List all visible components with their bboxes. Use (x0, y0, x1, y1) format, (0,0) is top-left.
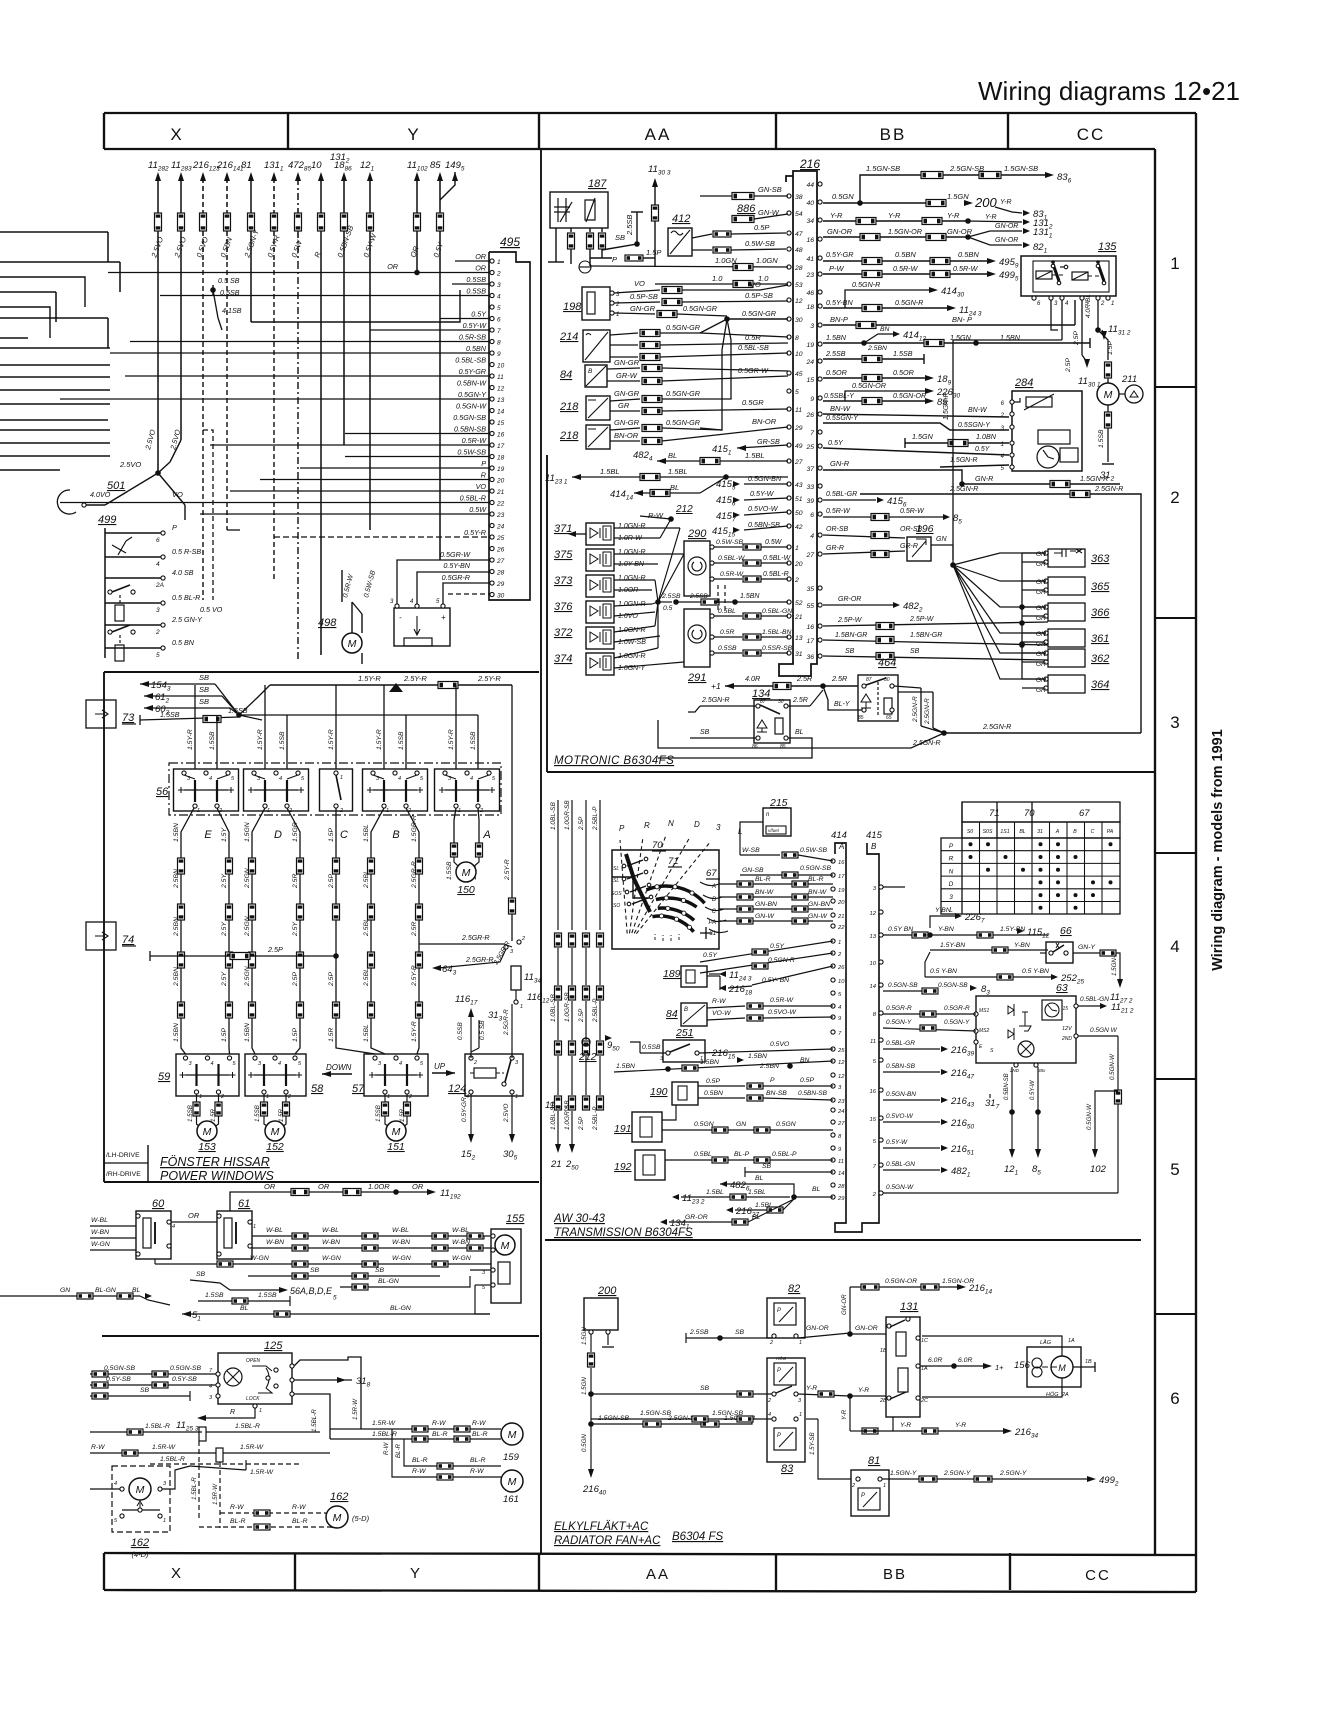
svg-text:2.5BL: 2.5BL (363, 918, 370, 937)
414/30 row (845, 290, 930, 308)
svg-text:1.5SB: 1.5SB (893, 349, 913, 358)
svg-text:1: 1 (259, 1408, 262, 1414)
svg-text:1B: 1B (1085, 1359, 1092, 1365)
dashed stub to pin 30 (448, 593, 490, 595)
svg-text:1.5GN-SB: 1.5GN-SB (640, 1410, 671, 1417)
svg-text:1.5GN-SB: 1.5GN-SB (1004, 164, 1038, 173)
svg-text:S0S: S0S (983, 829, 993, 835)
wire to 495 pin 21 (230, 490, 490, 492)
svg-text:0.5SGN-Y: 0.5SGN-Y (958, 422, 991, 429)
BL-R row to 161 (404, 1439, 501, 1466)
svg-text:31: 31 (795, 651, 803, 658)
svg-text:84: 84 (666, 1008, 678, 1020)
svg-text:RADIATOR FAN+AC: RADIATOR FAN+AC (554, 1535, 661, 1547)
svg-text:2.5R: 2.5R (411, 922, 418, 937)
svg-text:0.5GN-OR: 0.5GN-OR (893, 393, 926, 400)
motronic section bottom border (547, 771, 1155, 773)
svg-text:152: 152 (266, 1141, 284, 1153)
svg-text:GN-OR: GN-OR (806, 1325, 829, 1332)
svg-text:OR: OR (188, 1211, 200, 1220)
0.5Y-BN 252/25 row (925, 976, 1052, 978)
wires left of 60 (90, 1225, 136, 1227)
svg-text:GR-R: GR-R (900, 543, 918, 550)
0.5GR-R row (883, 1013, 976, 1015)
svg-text:0.5SB: 0.5SB (466, 287, 486, 296)
svg-text:3: 3 (378, 1061, 382, 1067)
svg-text:85: 85 (1032, 1164, 1041, 1177)
svg-text:1: 1 (883, 1483, 886, 1489)
svg-text:1.5BN: 1.5BN (700, 1059, 719, 1066)
svg-text:2: 2 (794, 577, 799, 584)
svg-text:BN-OR: BN-OR (614, 431, 639, 440)
svg-text:2.5P-W: 2.5P-W (909, 616, 935, 623)
svg-text:25: 25 (805, 444, 814, 451)
svg-text:1124 3: 1124 3 (729, 970, 752, 983)
svg-text:0.5GN-GR: 0.5GN-GR (666, 418, 700, 427)
svg-text:2.5Y: 2.5Y (221, 972, 228, 987)
svg-text:E: E (204, 829, 212, 841)
svg-text:1125 3: 1125 3 (176, 1420, 199, 1433)
svg-text:(5-D): (5-D) (352, 1514, 370, 1523)
svg-text:2.5Y: 2.5Y (221, 874, 228, 889)
svg-text:Y-R: Y-R (830, 211, 843, 220)
svg-text:151: 151 (387, 1141, 405, 1153)
svg-text:PA: PA (1107, 829, 1114, 835)
2.5GR-R row to 11/34 (419, 943, 504, 945)
left edge BL-GN fuses (0, 1295, 140, 1297)
svg-text:56: 56 (156, 786, 169, 798)
svg-text:4822: 4822 (903, 601, 923, 614)
svg-text:41412: 41412 (903, 330, 926, 343)
svg-text:7: 7 (873, 1164, 877, 1170)
wire to 495 pin 11 (125, 375, 490, 377)
switch feed wires Y-R / SB (194, 685, 196, 769)
svg-text:P: P (481, 459, 486, 468)
svg-text:187: 187 (588, 178, 607, 190)
svg-text:P: P (770, 1077, 775, 1084)
svg-text:35: 35 (806, 586, 814, 593)
svg-text:1: 1 (520, 1004, 523, 1010)
svg-text:2.5Y-R: 2.5Y-R (403, 674, 427, 683)
svg-text:0.5R-W: 0.5R-W (893, 264, 919, 273)
svg-text:189: 189 (663, 968, 681, 980)
svg-text:W-BN: W-BN (266, 1239, 284, 1246)
svg-text:1A: 1A (921, 1366, 928, 1372)
svg-text:1.5GN: 1.5GN (581, 1377, 588, 1395)
svg-text:OPEN: OPEN (246, 1358, 261, 1364)
svg-text:1.5R-W: 1.5R-W (250, 1469, 274, 1476)
svg-text:0.5GN-OR: 0.5GN-OR (885, 1278, 917, 1285)
svg-text:53: 53 (795, 282, 803, 289)
svg-text:5: 5 (1170, 1160, 1179, 1179)
2.5Y-R vertical right (511, 685, 513, 941)
motor 150 (454, 808, 456, 843)
svg-text:GN: GN (736, 1121, 746, 1128)
svg-text:5: 5 (873, 1139, 877, 1145)
svg-text:1.5GN: 1.5GN (912, 432, 934, 441)
svg-text:11282: 11282 (148, 160, 169, 173)
svg-text:1.5Y-R: 1.5Y-R (187, 729, 194, 750)
svg-text:11283: 11283 (171, 160, 192, 173)
svg-text:21: 21 (550, 1159, 562, 1170)
svg-text:GN-R: GN-R (975, 474, 993, 483)
svg-text:11192: 11192 (440, 1188, 461, 1201)
fuse feed 18/86 (341, 172, 347, 181)
svg-text:21614: 21614 (968, 1283, 992, 1296)
svg-text:1: 1 (1001, 442, 1004, 448)
svg-text:17: 17 (838, 874, 845, 880)
wire to 495 pin 18 (345, 456, 490, 458)
svg-text:0.5Y-GR: 0.5Y-GR (461, 1097, 468, 1122)
svg-text:1.5BN-GR: 1.5BN-GR (910, 632, 942, 639)
1.5GN 1.0BN row (904, 438, 906, 448)
svg-text:2.5VO: 2.5VO (119, 460, 141, 469)
svg-text:2.5P: 2.5P (1073, 331, 1080, 346)
svg-text:AW 30-43: AW 30-43 (553, 1213, 606, 1225)
wire to 495 pin 3 (452, 283, 490, 285)
svg-text:1.0: 1.0 (712, 274, 723, 283)
svg-text:4: 4 (209, 776, 212, 782)
svg-text:499: 499 (98, 514, 116, 526)
svg-text:BN-W: BN-W (808, 889, 827, 896)
GN-SB row (740, 874, 833, 876)
svg-text:0.5SBL-Y: 0.5SBL-Y (824, 393, 855, 400)
svg-text:1.5Y-R: 1.5Y-R (328, 729, 335, 750)
svg-text:SO: SO (613, 903, 620, 909)
R-W row to 161 (392, 1429, 501, 1477)
connector 365 (1048, 577, 1085, 595)
svg-text:24: 24 (837, 1109, 844, 1115)
svg-text:SL: SL (613, 878, 619, 884)
svg-text:150: 150 (457, 884, 475, 896)
svg-text:376: 376 (554, 601, 573, 613)
svg-text:0.5Y-GR: 0.5Y-GR (459, 367, 486, 376)
svg-text:-: - (399, 613, 402, 622)
svg-text:1.5BL-R: 1.5BL-R (145, 1423, 170, 1430)
svg-text:200: 200 (974, 195, 997, 210)
svg-text:1.5P: 1.5P (328, 828, 335, 842)
svg-text:1: 1 (266, 1094, 269, 1100)
bottom band bottom line (104, 1590, 1196, 1592)
row strip separators (1155, 386, 1196, 388)
svg-text:P: P (949, 843, 954, 850)
svg-text:290: 290 (687, 528, 707, 540)
svg-text:0.5BL-GR: 0.5BL-GR (826, 491, 857, 498)
svg-text:4: 4 (838, 1005, 841, 1011)
svg-text:0.5SB: 0.5SB (457, 1022, 464, 1040)
svg-text:251: 251 (675, 1027, 694, 1039)
svg-text:1.5R: 1.5R (210, 1108, 217, 1122)
svg-text:0.5W-SB: 0.5W-SB (716, 539, 744, 546)
124 feed wires (470, 1015, 472, 1058)
svg-text:VO: VO (750, 280, 761, 289)
125 to right motors wiring (294, 1394, 330, 1439)
svg-text:W-SB: W-SB (742, 847, 760, 854)
left region border for power windows (103, 672, 105, 1182)
LH/RH drive labels (147, 1145, 149, 1182)
svg-text:58: 58 (311, 1083, 324, 1095)
svg-text:19: 19 (497, 466, 505, 473)
0.5Y row (823, 448, 1009, 455)
svg-text:0.5P: 0.5P (754, 223, 769, 232)
svg-text:2.5P: 2.5P (328, 972, 335, 987)
svg-text:6: 6 (1037, 301, 1041, 307)
svg-text:1.5BL-R: 1.5BL-R (235, 1423, 260, 1430)
svg-text:2.5SB: 2.5SB (661, 593, 681, 600)
GR-R row (823, 551, 905, 554)
svg-text:950: 950 (607, 1040, 620, 1053)
svg-text:22: 22 (837, 925, 845, 931)
fuse feed 10 (318, 172, 324, 181)
svg-text:1: 1 (458, 808, 461, 814)
svg-text:0.5BL: 0.5BL (694, 1151, 712, 1158)
svg-text:1.5R-W: 1.5R-W (240, 1444, 264, 1451)
svg-text:0.5BN-SB: 0.5BN-SB (1004, 1073, 1010, 1100)
60/61 section bottom border (102, 1335, 539, 1337)
svg-text:GN-OR: GN-OR (995, 237, 1018, 244)
svg-text:0.5W-SB: 0.5W-SB (800, 847, 828, 854)
svg-text:159: 159 (503, 1452, 520, 1463)
svg-text:Y-R: Y-R (985, 214, 997, 221)
svg-text:0.5GN-R: 0.5GN-R (895, 298, 923, 307)
svg-text:156: 156 (1014, 1360, 1031, 1371)
svg-text:5: 5 (873, 1059, 877, 1065)
svg-text:2: 2 (521, 936, 525, 942)
svg-text:836: 836 (1057, 172, 1072, 185)
svg-text:363: 363 (1091, 553, 1110, 565)
svg-text:3: 3 (390, 599, 394, 605)
83 feed wires (591, 1393, 772, 1395)
svg-text:0.5 VO: 0.5 VO (200, 605, 223, 614)
svg-text:1.5R: 1.5R (278, 1108, 285, 1122)
svg-text:46: 46 (806, 290, 814, 297)
svg-text:29: 29 (837, 1196, 845, 1202)
svg-text:4: 4 (156, 561, 160, 568)
content right border / number strip left line (1154, 149, 1156, 1555)
svg-text:R: R (481, 471, 486, 480)
482/6 arrow (720, 1181, 727, 1187)
svg-text:21: 21 (496, 489, 505, 496)
482/2 row (823, 604, 893, 606)
svg-text:28: 28 (794, 265, 803, 272)
wire to 495 pin 7 (370, 329, 490, 331)
svg-text:0.5P: 0.5P (706, 1078, 720, 1085)
svg-text:0.5VO: 0.5VO (770, 1041, 790, 1048)
svg-text:3: 3 (497, 282, 501, 289)
wire to 495 pin 13 (60, 398, 490, 400)
11/25-3 output (205, 1408, 255, 1418)
svg-text:W-BN: W-BN (322, 1239, 340, 1246)
svg-text:12V: 12V (1062, 1026, 1073, 1032)
GN-R row (823, 470, 962, 484)
svg-text:2.5BN: 2.5BN (759, 1063, 779, 1070)
svg-text:P: P (612, 255, 617, 264)
82 feed wires (686, 1337, 772, 1339)
pump motor 211 (1105, 362, 1112, 378)
svg-text:2: 2 (769, 1340, 773, 1346)
svg-text:218: 218 (559, 401, 579, 413)
svg-text:2: 2 (287, 1094, 291, 1100)
414/12 row 1.5BN (823, 342, 1090, 344)
svg-text:0.5Y-R: 0.5Y-R (265, 234, 281, 259)
svg-text:1.5P: 1.5P (1107, 341, 1114, 355)
svg-text:0.5P: 0.5P (800, 1077, 814, 1084)
svg-text:24: 24 (496, 524, 505, 531)
svg-text:85: 85 (430, 160, 441, 171)
svg-text:8: 8 (838, 1134, 842, 1140)
svg-text:5: 5 (233, 1061, 237, 1067)
svg-text:B: B (712, 897, 716, 903)
svg-text:25: 25 (837, 1048, 845, 1054)
svg-text:0.5BL-R: 0.5BL-R (460, 494, 486, 503)
svg-text:GN-W: GN-W (808, 913, 827, 920)
svg-text:31: 31 (1037, 829, 1043, 835)
svg-text:1.5BN: 1.5BN (616, 1063, 635, 1070)
SB short row (745, 1171, 833, 1173)
svg-text:1.5SB: 1.5SB (254, 1105, 261, 1122)
column divider Y/AA bottom (538, 1553, 540, 1590)
svg-text:1311: 1311 (264, 160, 284, 173)
0.5BL-Y row (823, 400, 926, 402)
svg-text:BN: BN (800, 1057, 810, 1064)
svg-text:0.5GR-W: 0.5GR-W (440, 550, 471, 559)
svg-text:1: 1 (1111, 301, 1114, 307)
svg-text:102: 102 (1090, 1164, 1107, 1175)
svg-text:6: 6 (1001, 401, 1005, 407)
svg-text:1.5BN: 1.5BN (826, 333, 847, 342)
svg-text:OR: OR (318, 1182, 330, 1191)
svg-text:BL-R: BL-R (292, 1518, 308, 1525)
svg-text:M: M (501, 1240, 510, 1252)
svg-text:0.5 Y-BN: 0.5 Y-BN (1022, 968, 1049, 975)
svg-text:P: P (777, 1433, 781, 1439)
svg-text:VO: VO (476, 482, 487, 491)
svg-text:0.5W-SB: 0.5W-SB (363, 569, 377, 598)
svg-text:0.5VO-W: 0.5VO-W (768, 1009, 797, 1016)
svg-text:1.5BL-BN: 1.5BL-BN (762, 629, 792, 636)
svg-text:4: 4 (398, 776, 401, 782)
svg-text:5: 5 (156, 652, 160, 659)
102 branch (1095, 1091, 1118, 1150)
connector 364 (1048, 675, 1085, 693)
svg-text:4156: 4156 (716, 495, 736, 508)
svg-text:0.5Y: 0.5Y (828, 438, 844, 447)
svg-text:2.5BN: 2.5BN (867, 345, 887, 352)
svg-text:v/fuel: v/fuel (768, 828, 780, 833)
svg-text:2.5P: 2.5P (578, 816, 585, 831)
BL-GN row (340, 1286, 460, 1288)
svg-text:85: 85 (953, 513, 962, 526)
wire to 495 pin 23 (200, 513, 490, 515)
svg-text:GN-OR: GN-OR (995, 223, 1018, 230)
svg-text:21: 21 (794, 614, 803, 621)
svg-text:0.5W: 0.5W (765, 539, 783, 546)
svg-text:1: 1 (515, 1094, 518, 1100)
motor 151 (384, 1094, 386, 1102)
svg-text:0.5OR: 0.5OR (826, 368, 847, 377)
svg-text:1+: 1+ (995, 1363, 1004, 1372)
svg-text:42: 42 (795, 524, 803, 531)
svg-text:Y: Y (407, 125, 418, 144)
0.5BN-SB 12/1 vertical (1011, 1067, 1013, 1150)
svg-text:20: 20 (496, 478, 505, 485)
svg-text:B: B (588, 368, 593, 375)
outer frame top border (104, 112, 1196, 114)
svg-text:29: 29 (496, 581, 505, 588)
svg-text:52: 52 (795, 600, 803, 607)
motronic section left border (546, 455, 548, 772)
svg-text:0.5BL: 0.5BL (718, 608, 736, 615)
svg-text:GN: GN (1036, 631, 1046, 638)
131 to 156 wires (922, 1336, 1062, 1356)
svg-text:0.5BL-GR: 0.5BL-GR (886, 1040, 915, 1047)
svg-text:1.5BN: 1.5BN (748, 1053, 767, 1060)
wire to 495 pin 2 (108, 272, 490, 274)
svg-text:37: 37 (806, 466, 814, 473)
svg-text:0.5GN-GR: 0.5GN-GR (666, 323, 700, 332)
transmission section bottom border (545, 1239, 1141, 1241)
svg-text:41515: 41515 (712, 526, 735, 539)
svg-text:A: A (1055, 829, 1060, 835)
svg-text:GN-SB: GN-SB (758, 185, 782, 194)
svg-text:W-BL: W-BL (91, 1217, 108, 1224)
svg-text:0.5GN-Y: 0.5GN-Y (886, 1019, 912, 1026)
window switch B (363, 769, 428, 811)
svg-text:11612: 11612 (527, 992, 550, 1005)
226/30 row (845, 391, 926, 401)
svg-text:15: 15 (806, 377, 814, 384)
415 right pins (879, 885, 883, 889)
svg-text:0.5BN: 0.5BN (218, 235, 234, 258)
svg-text:2.5BL: 2.5BL (363, 968, 370, 987)
svg-text:1: 1 (197, 808, 200, 814)
svg-text:121: 121 (360, 160, 375, 173)
SB junction (236, 712, 242, 718)
svg-text:7: 7 (497, 328, 501, 335)
svg-text:1.5BL: 1.5BL (745, 451, 765, 460)
svg-text:2: 2 (408, 1094, 412, 1100)
svg-text:BN-W: BN-W (968, 407, 988, 414)
81 output row (882, 1478, 1090, 1480)
fuse feed 11/102 (414, 172, 420, 181)
1.5GN-SB top row (860, 175, 1048, 204)
svg-text:1.5BL-R: 1.5BL-R (191, 1477, 198, 1500)
svg-text:10: 10 (497, 363, 505, 370)
svg-text:Y-R: Y-R (900, 1422, 911, 1429)
125 left wires (90, 1373, 216, 1375)
svg-text:0.5R-W: 0.5R-W (953, 264, 979, 273)
svg-text:1.5BL: 1.5BL (600, 467, 620, 476)
svg-text:23: 23 (496, 512, 505, 519)
216/27 arrow (726, 1207, 733, 1213)
svg-text:2.5GN-R: 2.5GN-R (912, 696, 919, 723)
svg-text:1.5SB: 1.5SB (375, 1105, 382, 1122)
svg-text:GR-SB: GR-SB (757, 437, 780, 446)
svg-text:0.5GN-GR: 0.5GN-GR (666, 389, 700, 398)
svg-text:3: 3 (156, 607, 160, 614)
svg-text:2: 2 (872, 1192, 877, 1198)
svg-text:2.5P: 2.5P (292, 972, 299, 987)
svg-text:BL: BL (1019, 829, 1025, 835)
svg-text:12: 12 (497, 386, 505, 393)
svg-text:1131 2: 1131 2 (1108, 324, 1131, 337)
resistor 11/34 (511, 966, 521, 990)
svg-text:2.5GN-R: 2.5GN-R (1094, 484, 1123, 493)
svg-text:45: 45 (795, 371, 803, 378)
svg-text:4: 4 (172, 1224, 175, 1230)
fuse feed 472/85 (295, 172, 301, 181)
svg-text:M: M (508, 1476, 517, 1488)
